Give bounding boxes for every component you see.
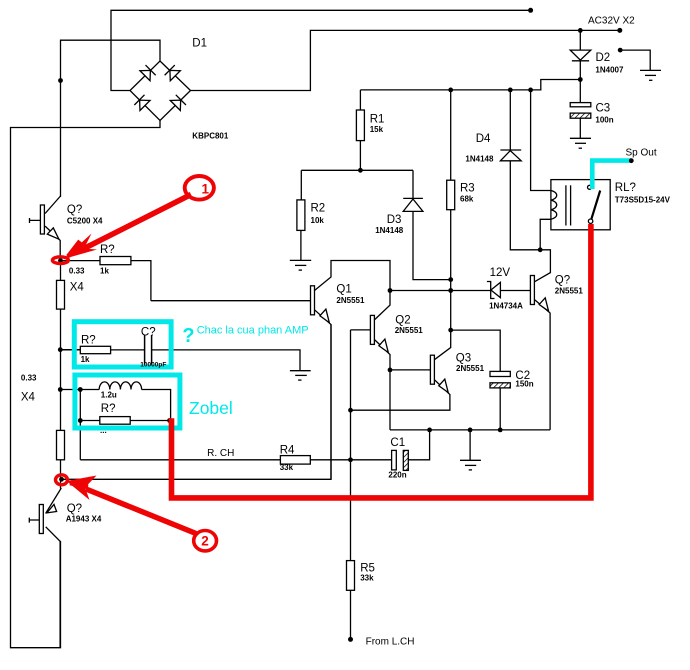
svg-text:2N5551: 2N5551 <box>555 286 584 295</box>
svg-text:Q2: Q2 <box>395 315 410 327</box>
svg-text:Zobel: Zobel <box>189 398 233 418</box>
relay coil arcs <box>551 191 557 220</box>
node Q2 base junction <box>348 408 353 413</box>
wire zobel R tap branch <box>60 350 80 390</box>
wire output node to Q1 emitter <box>62 325 332 480</box>
svg-text:Sp Out: Sp Out <box>626 148 657 159</box>
svg-text:AC32V X2: AC32V X2 <box>588 16 635 27</box>
wire bridge - output left border loop <box>11 121 161 648</box>
svg-text:2N5551: 2N5551 <box>336 296 365 305</box>
wire relay coil bottom feed <box>540 219 551 250</box>
wire R1 bottom crossbar <box>301 169 413 171</box>
node D2 anode junction <box>578 28 583 33</box>
svg-text:10k: 10k <box>311 216 325 225</box>
ground amp input <box>290 370 311 372</box>
svg-text:220n: 220n <box>388 470 406 479</box>
svg-text:10000pF: 10000pF <box>140 362 166 369</box>
node zobel inductor left <box>78 387 83 392</box>
node rail R3 junction <box>448 88 453 93</box>
svg-text:Q?: Q? <box>67 503 82 515</box>
diode D1 top-left <box>140 65 156 81</box>
diode D2 <box>579 30 581 50</box>
wire Q2 emitter to bottom rail <box>389 370 391 430</box>
svg-text:33k: 33k <box>360 573 374 582</box>
node zobel output junction <box>167 418 172 423</box>
resistor R3 <box>450 90 452 180</box>
wire thick red speaker feed <box>172 224 591 498</box>
wire R.CH to R4 <box>80 459 280 461</box>
wire bridge + output to V+ rail <box>61 40 161 197</box>
svg-text:C5200 X4: C5200 X4 <box>67 217 103 226</box>
node Q3 collector junction <box>448 328 453 333</box>
zener diode 12V <box>487 282 495 299</box>
wire relay supply rail step <box>360 80 580 90</box>
diode D4 <box>509 90 511 150</box>
node zobel resistor left <box>78 418 83 423</box>
resistor R1 <box>359 90 361 110</box>
ground X2 <box>640 69 661 71</box>
svg-text:2N5551: 2N5551 <box>456 364 485 373</box>
node AC2 terminal dot <box>617 28 622 33</box>
node rail D4 junction <box>508 88 513 93</box>
ground bottom rail <box>469 430 471 460</box>
capacitor C1 <box>392 450 397 470</box>
cyan box zobel <box>75 375 180 428</box>
resistor R5 <box>347 561 355 591</box>
svg-text:T73S5D15-24V: T73S5D15-24V <box>615 196 671 205</box>
resistor X4 0.33 upper <box>60 261 62 281</box>
node 1 output emitter junction <box>58 258 63 263</box>
wire X2 to ground <box>620 50 650 70</box>
transistor Q2 <box>351 330 371 410</box>
cyan box amp input <box>74 322 171 367</box>
transistor Q? relay driver <box>530 276 534 305</box>
relay blade <box>591 191 600 220</box>
svg-text:R2: R2 <box>311 203 326 215</box>
svg-text:1k: 1k <box>100 266 109 275</box>
svg-text:2: 2 <box>201 533 209 548</box>
node D2 cathode junction <box>578 77 583 82</box>
red arrow 1 <box>64 195 192 260</box>
diode D1 bottom-left <box>134 95 150 111</box>
node D4 relay coil junction <box>538 247 543 252</box>
ground C3 <box>570 137 591 139</box>
svg-text:KBPC801: KBPC801 <box>192 132 229 141</box>
svg-text:Q?: Q? <box>555 275 570 287</box>
node mystery junction on V+ <box>58 78 63 83</box>
wire Q2 base to R5 <box>350 410 352 560</box>
inductor 1.2u <box>80 382 170 421</box>
svg-text:0.33: 0.33 <box>69 266 85 275</box>
capacitor C3 <box>579 80 581 103</box>
svg-text:1N4148: 1N4148 <box>375 226 404 235</box>
svg-text:Chac la cua phan AMP: Chac la cua phan AMP <box>197 325 309 337</box>
transistor Q3 <box>390 369 430 371</box>
resistor X4 0.33 lower <box>57 430 65 459</box>
svg-text:D3: D3 <box>387 214 402 226</box>
transistor Q1 <box>151 300 311 302</box>
node Q1 collector to zener rail <box>388 288 393 293</box>
diode D1 top-right <box>165 65 181 81</box>
svg-text:RL?: RL? <box>615 182 636 194</box>
svg-text:Q?: Q? <box>67 204 82 216</box>
resistor R? 1k feedback <box>61 260 101 262</box>
svg-text:R. CH: R. CH <box>207 448 234 459</box>
wire relay coil top feed <box>531 90 551 191</box>
node R1 bottom junction <box>358 168 363 173</box>
svg-text:C?: C? <box>141 327 156 339</box>
node AC1 terminal dot <box>528 8 533 13</box>
node D3 to R3 vertical junction <box>448 277 453 282</box>
diode D3 <box>412 170 414 198</box>
svg-text:C3: C3 <box>596 102 611 114</box>
svg-text:1N4148: 1N4148 <box>465 154 494 163</box>
svg-text:0.33: 0.33 <box>21 373 37 382</box>
svg-text:R4: R4 <box>280 445 295 457</box>
svg-text:1N4734A: 1N4734A <box>489 302 523 311</box>
wire cyan Sp Out <box>592 161 631 189</box>
svg-text:A1943 X4: A1943 X4 <box>66 515 102 524</box>
svg-text:D1: D1 <box>192 38 207 50</box>
svg-text:15k: 15k <box>370 125 384 134</box>
capacitor C2 <box>490 371 510 376</box>
svg-text:D4: D4 <box>476 133 491 145</box>
wire AC input top 2 <box>191 30 620 90</box>
wire AC input top 1 <box>111 10 531 90</box>
node Q2 emitter junction <box>388 368 393 373</box>
svg-text:C1: C1 <box>390 437 405 449</box>
ground R2 <box>290 259 311 261</box>
node X2 stub dot <box>618 48 623 53</box>
svg-text:1: 1 <box>202 182 210 197</box>
node rail relay-coil junction <box>528 88 533 93</box>
wire zener rail <box>390 290 491 292</box>
diode D1 bottom-right <box>170 95 186 111</box>
red circle 1 <box>185 176 214 200</box>
node From L.CH terminal <box>348 637 353 642</box>
svg-text:R?: R? <box>101 403 116 415</box>
svg-text:150n: 150n <box>515 380 533 389</box>
svg-text:1k: 1k <box>81 355 90 364</box>
wire zobel left vertical <box>79 390 81 460</box>
svg-text:R?: R? <box>81 334 96 346</box>
svg-text:1N4007: 1N4007 <box>595 66 624 75</box>
transistor Q? C5200 <box>30 218 41 223</box>
svg-text:R3: R3 <box>460 183 475 195</box>
relay RL? box <box>551 180 610 230</box>
bridge rectifier D1 diamond <box>130 61 191 121</box>
resistor R2 <box>300 170 302 200</box>
svg-text:R1: R1 <box>370 114 385 126</box>
resistor R? 1k amp input <box>60 349 80 351</box>
node bottom rail ground junction <box>468 428 473 433</box>
resistor R? zobel <box>80 420 100 422</box>
svg-text:From L.CH: From L.CH <box>366 637 415 648</box>
svg-text:Q3: Q3 <box>456 353 471 365</box>
node 2 output junction <box>59 477 64 482</box>
red highlight node 1 <box>52 257 68 264</box>
svg-text:R?: R? <box>100 244 115 256</box>
transistor Q? A1943 <box>29 518 39 523</box>
node bottom rail C2 junction <box>498 428 503 433</box>
node bottom rail C1 junction <box>427 428 432 433</box>
node Sp Out terminal dot <box>629 158 634 163</box>
node R4 C1 junction <box>348 457 353 462</box>
relay core lines <box>565 185 567 225</box>
node zobel lower tap <box>58 387 63 392</box>
red highlight node 2 <box>56 475 68 485</box>
svg-text:X4: X4 <box>21 392 36 404</box>
svg-text:?: ? <box>182 325 194 347</box>
capacitor C? 10000pF <box>144 335 146 365</box>
red circle 2 <box>194 531 217 551</box>
svg-text:12V: 12V <box>490 267 511 279</box>
node R3 vertical zener-rail junction <box>448 288 453 293</box>
relay top contact <box>588 185 592 189</box>
svg-text:68k: 68k <box>460 195 474 204</box>
svg-text:100n: 100n <box>595 116 613 125</box>
node zobel upper tap <box>58 347 63 352</box>
svg-text:Q1: Q1 <box>336 284 351 296</box>
svg-text:33k: 33k <box>280 463 294 472</box>
resistor R4 <box>280 456 310 465</box>
svg-text:1.2u: 1.2u <box>101 391 117 400</box>
svg-text:D2: D2 <box>596 52 611 64</box>
wire bottom rail <box>390 429 550 431</box>
svg-text:X4: X4 <box>70 281 85 293</box>
red arrow 2 <box>67 476 197 534</box>
svg-text:2N5551: 2N5551 <box>395 326 424 335</box>
wire C2 branch <box>451 330 501 371</box>
relay bottom contact <box>588 219 592 223</box>
